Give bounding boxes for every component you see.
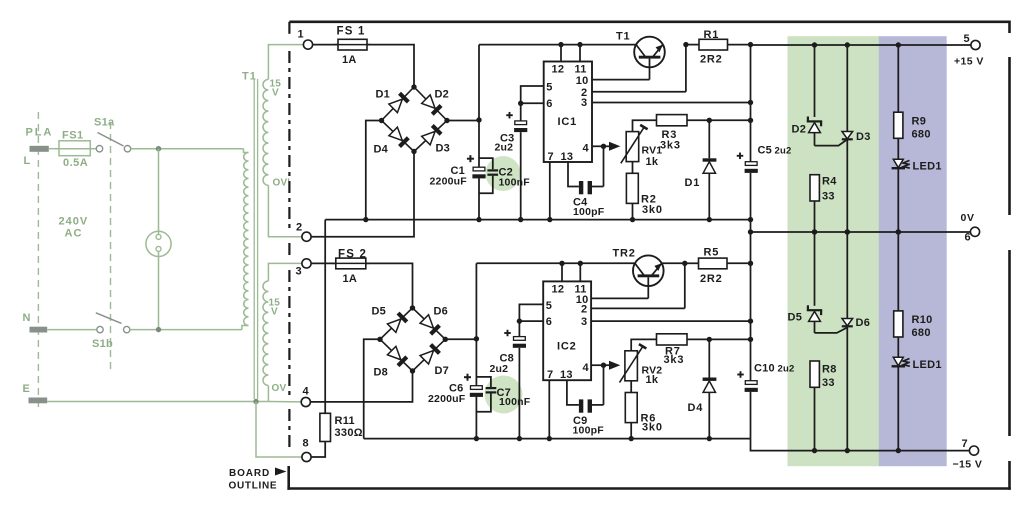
junction IC2pin7-rail [547, 436, 552, 441]
wire TR2 emitter vertical [684, 263, 686, 308]
label T1 [242, 71, 257, 83]
raw positive rail [479, 44, 636, 46]
svg-text:3: 3 [581, 316, 587, 328]
terminal 6 [965, 227, 980, 243]
svg-text:7: 7 [548, 151, 554, 163]
IC1 pin 10 [576, 75, 650, 87]
board outline right edge [1008, 21, 1011, 490]
junction D1 top [707, 118, 712, 123]
junction LED-0V [896, 229, 901, 234]
bridge 2 AC2 lead to terminal 4 [310, 371, 412, 402]
svg-text:D2: D2 [792, 124, 807, 136]
label PLA [26, 127, 54, 139]
secondary 2 label 0V [272, 383, 287, 394]
diode D3 [422, 125, 450, 154]
svg-text:1: 1 [298, 29, 304, 41]
svg-text:−15 V: −15 V [953, 459, 983, 471]
resistor R1 2R2 [686, 29, 751, 66]
mains boundary dashed line right [110, 122, 112, 372]
svg-text:13: 13 [560, 369, 573, 381]
svg-text:4: 4 [583, 143, 590, 155]
label -15V [953, 459, 983, 471]
IC2 pin 10 [576, 294, 649, 306]
capacitor C7 100nF [476, 377, 530, 412]
resistor R2 3k0 [626, 162, 662, 220]
secondary 2 bottom lead [267, 386, 269, 402]
transformer secondary winding 1 [263, 79, 268, 185]
label 0V top [961, 212, 975, 224]
svg-text:7: 7 [547, 369, 553, 381]
terminal 8 [302, 438, 311, 462]
bridge 1 positive lead [447, 120, 479, 122]
board outline left edge dashed [288, 22, 291, 490]
transformer secondary winding 2 [263, 281, 268, 386]
wire RV1 top [633, 120, 657, 131]
svg-text:12: 12 [552, 64, 565, 76]
secondary 2 label 15V [269, 298, 281, 318]
junction R2-0V [630, 217, 635, 222]
svg-text:R5: R5 [704, 247, 720, 259]
IC2 pin 13 [560, 369, 579, 405]
terminal 2 [296, 221, 311, 241]
junction R1 right [748, 42, 753, 47]
svg-text:D4: D4 [688, 402, 704, 414]
secondary 1 bottom lead [268, 185, 301, 236]
terminal N [23, 312, 48, 333]
op-amp regulator IC1 [544, 62, 592, 163]
bridge rectifier 1 frame [382, 87, 448, 152]
svg-text:10: 10 [576, 75, 589, 87]
bridge 2 vertex dots [377, 305, 448, 374]
svg-text:D1: D1 [685, 177, 701, 189]
svg-text:D7: D7 [435, 365, 449, 377]
svg-text:100pF: 100pF [573, 206, 605, 218]
resistor R6 3k0 [625, 381, 662, 439]
junction bridge1neg-0V [363, 217, 368, 222]
+15V output wire [751, 44, 971, 46]
thyristor D6 [842, 232, 870, 451]
svg-text:R9: R9 [912, 116, 927, 128]
IC2 pin 11 [575, 261, 587, 296]
svg-text:OV: OV [272, 383, 287, 394]
board outline top edge [289, 20, 1009, 23]
resistor R11 330 [311, 220, 363, 457]
resistor R4 33 [810, 175, 837, 232]
svg-text:D3: D3 [856, 131, 871, 143]
capacitor C5 2u2 [737, 145, 792, 220]
wire C6 [475, 339, 477, 439]
bridge 2 negative lead [364, 339, 380, 438]
IC2 pin 2 [581, 304, 685, 316]
wire FS1 to bridge [367, 45, 414, 87]
svg-text:2R2: 2R2 [700, 273, 723, 285]
raw rail corner to C1 [478, 45, 480, 120]
junction IC2 pin4 [601, 363, 606, 368]
node vertical bottom [750, 263, 752, 380]
svg-text:4: 4 [303, 386, 310, 398]
resistor R7 3k3 [657, 334, 751, 366]
wire FS2 to bridge 2 [366, 263, 413, 308]
potentiometer RV2 1k [604, 344, 663, 386]
svg-text:2u2: 2u2 [775, 146, 792, 157]
IC2 pin 12 [552, 261, 565, 296]
svg-text:100pF: 100pF [573, 425, 605, 437]
svg-text:3: 3 [581, 97, 587, 109]
IC1 pin 13 [561, 151, 579, 187]
raw rail corner to C6 [475, 263, 477, 339]
negative raw rail [364, 438, 751, 440]
junction TR2 emitter [682, 261, 687, 266]
LED1 top [892, 159, 942, 232]
green highlight band [788, 36, 880, 466]
IC1 pin 7 [548, 151, 554, 220]
bridge 1 AC2 lead to terminal 2 [311, 152, 414, 237]
svg-text:13: 13 [561, 151, 574, 163]
svg-text:33: 33 [822, 191, 835, 203]
IC1 pin 11 [575, 42, 587, 76]
junction emitter-R1 [683, 42, 688, 47]
svg-text:R4: R4 [822, 176, 837, 188]
capacitor C2 100nF [479, 158, 530, 193]
resistor R8 33 [810, 361, 837, 451]
svg-text:FS 1: FS 1 [337, 26, 366, 38]
wire N to S1b [47, 329, 97, 331]
junction D6-out [845, 448, 850, 453]
bridge rectifier 2 frame [380, 308, 445, 371]
-15V output wire [751, 439, 970, 451]
svg-text:S1a: S1a [94, 117, 115, 129]
IC1 pin 3 [581, 97, 751, 109]
svg-text:0V: 0V [961, 212, 975, 224]
svg-text:33: 33 [822, 377, 835, 389]
svg-text:AC: AC [65, 228, 83, 240]
svg-text:IC1: IC1 [558, 116, 578, 128]
junction pin4 [601, 144, 606, 149]
diode D5 [372, 306, 407, 333]
resistor R9 680 [894, 45, 931, 160]
junction pin7-0V [547, 217, 552, 222]
gate wire D5-D6 [815, 328, 848, 333]
capacitor C8 2u2 [490, 321, 527, 439]
svg-text:5: 5 [964, 33, 970, 45]
terminal 1 [298, 29, 313, 50]
potentiometer RV1 1k [604, 125, 663, 168]
neon indicator lamp [146, 231, 171, 330]
highlight circle around C7 [485, 376, 523, 414]
svg-text:100nF: 100nF [499, 396, 531, 408]
svg-text:D8: D8 [374, 367, 388, 379]
svg-text:V: V [272, 88, 279, 99]
IC1 pin 5 [521, 81, 553, 103]
svg-text:680: 680 [912, 129, 931, 141]
svg-text:L: L [24, 155, 31, 167]
earth wire E [47, 401, 268, 403]
svg-text:2: 2 [296, 221, 302, 233]
svg-text:C5: C5 [758, 145, 772, 157]
svg-text:6: 6 [965, 232, 971, 244]
svg-text:6: 6 [546, 98, 552, 110]
label +15V [954, 56, 984, 68]
junction neutral-neon [156, 327, 161, 332]
bridge 1 vertex dots [379, 84, 450, 154]
svg-text:TR2: TR2 [613, 248, 636, 260]
0V rail [325, 219, 750, 221]
terminal 7 [962, 438, 979, 455]
diode D2 [422, 89, 449, 115]
svg-text:IC2: IC2 [557, 341, 577, 353]
svg-text:E: E [23, 383, 31, 395]
svg-text:R8: R8 [822, 364, 837, 376]
svg-text:D6: D6 [856, 317, 871, 329]
highlight circle around C2 [486, 156, 521, 191]
earth wire to terminal 8 [256, 402, 302, 458]
svg-text:12: 12 [552, 284, 565, 296]
svg-text:240V: 240V [59, 216, 89, 228]
junction bridge1+ [476, 117, 481, 122]
transistor TR2 [613, 248, 664, 299]
svg-text:3: 3 [296, 265, 302, 277]
junction C3-0V [518, 217, 523, 222]
svg-text:5: 5 [546, 300, 552, 312]
svg-text:V: V [271, 307, 278, 318]
svg-text:4: 4 [583, 362, 590, 374]
junction live-neon [156, 146, 161, 151]
transistor T1 [616, 31, 665, 80]
terminal 4 [301, 386, 310, 407]
resistor R3 3k3 [657, 115, 751, 152]
IC1 pin 2 [581, 87, 686, 99]
svg-text:C10: C10 [754, 363, 775, 375]
diode D4 [374, 127, 409, 155]
terminal 3 [296, 259, 312, 278]
svg-text:S1b: S1b [92, 338, 113, 350]
junction 0V step [748, 229, 753, 234]
svg-text:FS 2: FS 2 [338, 249, 367, 261]
IC1 pin 4 [583, 143, 604, 155]
svg-text:7: 7 [962, 438, 968, 450]
svg-text:T1: T1 [616, 31, 630, 43]
wire S1a to transformer primary [131, 149, 249, 153]
svg-text:1A: 1A [343, 273, 357, 285]
junction R10 top [896, 229, 901, 234]
svg-text:D2: D2 [435, 89, 449, 101]
purple highlight band [879, 36, 947, 466]
zener diode D2 [792, 45, 823, 146]
svg-text:FS1: FS1 [62, 130, 84, 142]
transformer primary winding [244, 153, 249, 326]
svg-text:2200uF: 2200uF [428, 393, 466, 405]
junction D3-0V [845, 229, 850, 234]
junction R5 right [748, 261, 753, 266]
svg-text:1k: 1k [646, 156, 659, 168]
svg-text:OV': OV' [273, 178, 290, 189]
svg-text:D4: D4 [374, 144, 389, 156]
svg-text:330Ω: 330Ω [335, 427, 363, 439]
svg-text:1k: 1k [646, 374, 659, 386]
svg-text:680: 680 [912, 327, 931, 339]
junction C8-rail [517, 436, 522, 441]
terminal L [24, 146, 49, 167]
junction C6-rail [474, 436, 479, 441]
mains boundary dashed line left [37, 112, 39, 407]
junction D1-0V [707, 217, 712, 222]
wire terminal3 to FS2 [311, 262, 336, 264]
raw rail bottom supply [476, 262, 635, 264]
terminal E [23, 383, 48, 403]
junction IC2 pins 5-6 [517, 318, 522, 323]
IC2 pin 4 [583, 362, 604, 374]
transformer core [254, 79, 257, 399]
capacitor C10 2u2 [737, 363, 794, 439]
junction C1-0V [476, 217, 481, 222]
thyristor D3 [842, 45, 871, 232]
svg-text:3k3: 3k3 [664, 354, 685, 366]
board outline bottom edge [287, 487, 1010, 490]
junction bridge2+ [474, 336, 479, 341]
svg-text:OUTLINE: OUTLINE [229, 480, 278, 491]
IC2 pin 7 [547, 369, 553, 438]
junction R9 top [896, 42, 901, 47]
bridge 2 positive lead [445, 338, 476, 340]
junction LED2-out [896, 448, 901, 453]
wire C1 [478, 120, 480, 220]
svg-text:D1: D1 [376, 89, 390, 101]
svg-text:6: 6 [546, 316, 552, 328]
svg-text:PLA: PLA [26, 127, 54, 139]
junction pins 5-6 [518, 101, 523, 106]
svg-text:3k0: 3k0 [642, 422, 663, 434]
lead to terminal 4 [268, 401, 301, 403]
IC2 pin 6 [519, 316, 552, 328]
secondary 2 top lead [268, 263, 301, 281]
wire RV2 top [631, 339, 656, 350]
0V output wire [751, 231, 971, 233]
capacitor C4 100pF [573, 146, 605, 218]
svg-text:3k3: 3k3 [660, 140, 681, 152]
wire to neon lamp [158, 149, 160, 235]
junction D4-rail [707, 436, 712, 441]
svg-text:LED1: LED1 [913, 161, 942, 173]
label 240V AC [59, 216, 89, 240]
fuse FS 1 1A [334, 26, 371, 67]
svg-text:100nF: 100nF [499, 176, 531, 188]
junction D3 top [845, 42, 850, 47]
junction R3-node [748, 118, 753, 123]
diode D8 [374, 346, 407, 378]
board outline label [229, 468, 287, 492]
svg-text:R11: R11 [335, 415, 355, 427]
svg-text:2u2: 2u2 [495, 142, 514, 154]
svg-text:R10: R10 [912, 314, 933, 326]
fuse FS1 0.5A [55, 130, 94, 170]
resistor R10 680 [894, 232, 933, 358]
svg-text:D5: D5 [788, 312, 803, 324]
junction R7-node [748, 337, 753, 342]
diode D6 bridge [420, 306, 448, 335]
junction D4 top [707, 337, 712, 342]
secondary 1 label 0V' [273, 178, 290, 189]
svg-text:5: 5 [546, 81, 552, 93]
IC1 pin 6 [521, 98, 553, 110]
svg-text:N: N [23, 312, 31, 324]
junction R4-0V [812, 229, 817, 234]
secondary 1 label 15V [270, 79, 282, 99]
bridge 1 negative lead [366, 121, 382, 220]
wire L to FS1 [49, 148, 59, 150]
svg-text:D3: D3 [436, 143, 450, 155]
wire emitter vertical to pin2 [685, 45, 687, 92]
diode D1 [376, 89, 409, 113]
svg-text:1A: 1A [342, 54, 356, 66]
junction pin3-node [748, 100, 753, 105]
junction D6z top [845, 229, 850, 234]
svg-text:LED1: LED1 [913, 359, 942, 371]
gate wire D2-D3 [815, 139, 848, 145]
node vertical 0V-R5 [750, 220, 752, 264]
switch S1a [94, 117, 131, 152]
junction D2 top [812, 42, 817, 47]
capacitor C3 2u2 [495, 103, 528, 219]
IC1 pin 12 [552, 42, 565, 76]
svg-text:2u2: 2u2 [490, 363, 509, 375]
svg-text:3k0: 3k0 [642, 204, 663, 216]
IC2 pin 5 [519, 300, 552, 321]
capacitor C9 100pF [573, 365, 605, 436]
switch S1b [92, 313, 130, 350]
diode D1 shunt [685, 120, 717, 219]
wire terminal1 to FS1 [313, 44, 338, 46]
junction D5z top [812, 229, 817, 234]
junction earth [253, 399, 258, 404]
terminal 5 [964, 33, 981, 50]
diode D7 [420, 345, 449, 377]
fuse FS 2 1A [332, 249, 369, 286]
junction R8-out [812, 448, 817, 453]
svg-text:D6: D6 [434, 306, 448, 318]
resistor R5 2R2 [662, 247, 751, 286]
svg-text:D5: D5 [372, 306, 386, 318]
capacitor C1 2200uF [430, 155, 486, 187]
svg-text:11: 11 [575, 64, 587, 76]
op-amp regulator IC2 [543, 281, 591, 380]
IC2 pin 3 [581, 316, 751, 328]
svg-text:2u2: 2u2 [778, 364, 795, 375]
junction R6-rail [629, 436, 634, 441]
junction C5-0V [748, 217, 753, 222]
zener diode D5 [788, 232, 823, 333]
capacitor C6 2200uF [428, 374, 483, 405]
junction IC2pin3-node [748, 318, 753, 323]
svg-text:R1: R1 [704, 29, 720, 41]
svg-text:8: 8 [303, 438, 309, 450]
node line right vertical [750, 45, 752, 162]
diode D4 shunt [688, 339, 717, 438]
svg-text:+15 V: +15 V [954, 56, 984, 68]
svg-text:2200uF: 2200uF [430, 176, 468, 188]
svg-text:0.5A: 0.5A [63, 157, 88, 169]
svg-text:BOARD: BOARD [229, 468, 270, 479]
LED1 bottom [892, 357, 942, 450]
secondary 1 top lead [268, 45, 303, 80]
wire S1b to transformer primary [130, 326, 249, 330]
svg-text:2: 2 [581, 304, 587, 316]
svg-text:2R2: 2R2 [700, 54, 723, 66]
